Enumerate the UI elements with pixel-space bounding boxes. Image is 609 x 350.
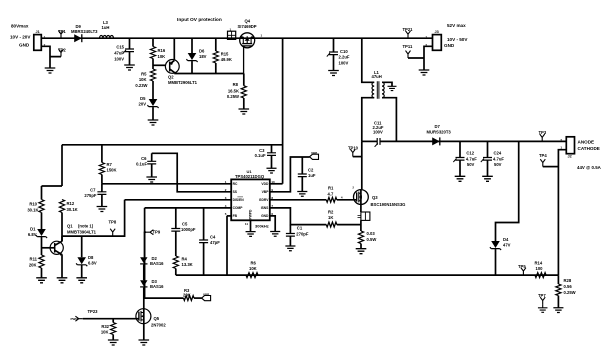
svg-text:10V - 50V: 10V - 50V [447,37,468,42]
svg-text:R28: R28 [564,278,572,283]
svg-text:D8: D8 [88,255,94,260]
svg-text:TP23: TP23 [88,309,99,314]
svg-text:R2: R2 [328,210,334,215]
svg-text:TP4: TP4 [539,153,547,158]
svg-text:GND: GND [19,43,30,48]
svg-text:D6: D6 [199,49,205,54]
svg-text:275pF: 275pF [84,193,97,198]
svg-text:TP2: TP2 [58,48,66,53]
svg-text:4.7uF: 4.7uF [466,156,477,161]
svg-text:ISNS: ISNS [261,206,269,210]
svg-text:J3: J3 [435,30,439,34]
svg-text:TP5: TP5 [518,264,526,269]
svg-text:30.1K: 30.1K [67,207,78,212]
svg-text:300kHz: 300kHz [255,223,269,228]
svg-text:10K: 10K [139,77,147,82]
svg-text:DIS/EN: DIS/EN [233,198,245,202]
svg-text:R7: R7 [107,162,113,167]
svg-text:ANODE: ANODE [578,140,595,145]
svg-text:47V: 47V [503,243,511,248]
svg-text:R14: R14 [535,260,543,265]
svg-text:MURS320T3: MURS320T3 [427,129,452,134]
svg-text:GND: GND [261,214,269,218]
svg-text:D5: D5 [140,96,146,101]
svg-text:50V: 50V [494,162,502,167]
svg-text:1uH: 1uH [102,25,110,30]
svg-text:C5: C5 [182,222,188,227]
svg-text:D7: D7 [435,124,441,129]
svg-text:R12: R12 [67,201,75,206]
svg-text:Q1: Q1 [67,224,73,229]
svg-text:R11: R11 [30,257,38,262]
svg-text:PWM: PWM [71,317,79,321]
svg-text:0.56: 0.56 [564,284,573,289]
svg-text:2.2uF: 2.2uF [339,55,350,60]
svg-text:MMBT2906LT1: MMBT2906LT1 [168,80,198,85]
svg-text:D1: D1 [30,226,36,231]
svg-text:C24: C24 [494,151,502,156]
svg-text:47uH: 47uH [372,74,382,79]
svg-text:Input OV protection: Input OV protection [177,17,222,23]
svg-text:1K: 1K [328,215,333,220]
svg-text:270pF: 270pF [296,231,309,236]
svg-text:13.3K: 13.3K [182,262,193,267]
svg-text:1uF: 1uF [308,173,316,178]
svg-text:11: 11 [245,222,249,226]
svg-text:80Vmax: 80Vmax [11,24,29,29]
svg-text:10K: 10K [158,54,166,59]
svg-text:TP10: TP10 [348,146,359,151]
svg-text:0.1uF: 0.1uF [136,161,147,166]
svg-text:Q4: Q4 [245,19,251,24]
svg-text:J1: J1 [36,30,40,34]
svg-text:TP21: TP21 [403,27,414,32]
svg-text:COMP: COMP [233,206,244,210]
svg-text:GND: GND [444,43,455,48]
svg-text:47pF: 47pF [210,240,220,245]
svg-text:49.9K: 49.9K [221,57,232,62]
svg-text:4.7: 4.7 [328,191,334,196]
svg-text:20V: 20V [139,101,147,106]
svg-text:RC: RC [233,182,238,186]
svg-text:R8: R8 [233,82,239,87]
svg-text:CATHODE: CATHODE [578,146,600,151]
svg-text:FB: FB [233,214,238,218]
svg-text:0.5W: 0.5W [367,237,377,242]
svg-text:TP3: TP3 [539,130,547,135]
svg-text:20K: 20K [29,262,37,267]
svg-text:50V: 50V [467,162,475,167]
svg-text:150K: 150K [107,167,117,172]
svg-text:Q2: Q2 [168,74,174,79]
svg-text:100V: 100V [339,60,349,65]
svg-text:TP11: TP11 [403,44,413,49]
svg-text:VBP: VBP [262,190,270,194]
svg-text:C10: C10 [340,49,348,54]
svg-text:R16: R16 [158,48,166,53]
svg-text:44V @ 0.5A: 44V @ 0.5A [577,165,602,170]
svg-text:Q5: Q5 [154,316,160,321]
svg-text:R5: R5 [141,72,147,77]
svg-text:4.7uF: 4.7uF [493,156,504,161]
svg-text:16.5K: 16.5K [228,89,239,94]
svg-text:TP7: TP7 [538,293,546,298]
svg-text:(note 1): (note 1) [78,224,94,229]
svg-text:MBRS240LT3: MBRS240LT3 [71,29,98,34]
svg-text:10V - 20V: 10V - 20V [10,35,31,40]
svg-text:R1: R1 [328,186,334,191]
svg-text:0.25W: 0.25W [564,290,576,295]
svg-text:VDD: VDD [261,182,269,186]
svg-text:C1: C1 [297,226,303,231]
svg-text:100: 100 [536,266,544,271]
svg-text:52V max: 52V max [447,23,466,28]
svg-text:6.8V: 6.8V [88,261,97,266]
svg-text:100V: 100V [114,56,124,61]
svg-text:10K: 10K [101,329,109,334]
svg-text:1000pF: 1000pF [181,227,196,232]
svg-text:VBP: VBP [311,151,317,155]
svg-text:Q3: Q3 [372,195,378,200]
svg-text:GDRV: GDRV [259,198,269,202]
svg-text:C6: C6 [141,156,147,161]
svg-text:TPS40211DGQ: TPS40211DGQ [235,174,265,179]
svg-text:0.23W: 0.23W [135,83,147,88]
svg-text:100V: 100V [373,130,383,135]
svg-text:TP1: TP1 [58,29,66,34]
svg-text:R4: R4 [182,256,188,261]
svg-text:MMBT3904LT1: MMBT3904LT1 [67,229,97,234]
svg-text:PWPD: PWPD [249,209,253,220]
svg-text:BAS16: BAS16 [150,261,164,266]
svg-text:C15: C15 [116,44,124,49]
svg-text:BSC190N15NS3G: BSC190N15NS3G [371,202,406,207]
svg-text:TP9: TP9 [153,229,161,234]
svg-text:6.8V: 6.8V [28,232,37,237]
svg-text:U1: U1 [247,169,253,174]
svg-text:C12: C12 [466,151,474,156]
svg-text:R32: R32 [101,324,109,329]
svg-text:TP8: TP8 [109,220,117,225]
svg-text:SI7469DP: SI7469DP [238,24,257,29]
svg-text:C7: C7 [90,188,96,193]
svg-text:0.25W: 0.25W [227,94,239,99]
svg-text:20K: 20K [183,292,191,297]
svg-text:R10: R10 [29,202,37,207]
svg-text:30.1K: 30.1K [27,207,38,212]
svg-text:D4: D4 [503,237,509,242]
svg-text:0.1uF: 0.1uF [255,153,266,158]
svg-text:BAS16: BAS16 [150,284,164,289]
svg-text:VBP: VBP [203,292,209,296]
svg-text:C2: C2 [308,167,314,172]
svg-text:0.03: 0.03 [367,231,376,236]
svg-text:10K: 10K [249,266,257,271]
svg-text:J2: J2 [568,154,572,158]
svg-text:R15: R15 [221,51,229,56]
svg-text:18V: 18V [199,54,207,59]
svg-text:2N7002: 2N7002 [151,323,166,328]
svg-text:47uF: 47uF [114,50,124,55]
